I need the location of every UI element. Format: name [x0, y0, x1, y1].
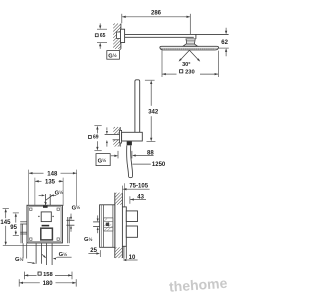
svg-text:G½: G½	[15, 256, 24, 263]
svg-text:62: 62	[221, 40, 228, 46]
svg-text:65: 65	[100, 33, 106, 39]
svg-text:G½: G½	[98, 157, 107, 164]
svg-text:95: 95	[10, 225, 17, 231]
svg-text:180: 180	[43, 281, 54, 287]
svg-text:135: 135	[45, 180, 56, 186]
svg-text:158: 158	[43, 272, 53, 278]
svg-text:286: 286	[151, 11, 162, 17]
svg-text:G½: G½	[84, 236, 93, 243]
svg-text:342: 342	[148, 109, 159, 115]
svg-text:G½: G½	[72, 204, 81, 211]
svg-text:148: 148	[47, 172, 58, 178]
svg-text:1250: 1250	[152, 162, 166, 168]
svg-text:69: 69	[93, 135, 99, 141]
svg-text:230: 230	[185, 70, 195, 76]
svg-text:G½: G½	[108, 52, 117, 59]
svg-text:30°: 30°	[182, 62, 190, 68]
svg-text:75-105: 75-105	[129, 184, 148, 190]
svg-text:88: 88	[147, 151, 154, 157]
